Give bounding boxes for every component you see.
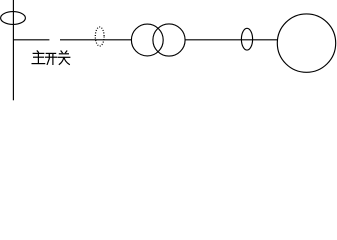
glyph 开 [46,53,57,64]
current transformer CT1 (dotted ellipse) [95,27,104,46]
source ellipse (incoming supply) [1,12,26,25]
wire: bus to main switch [13,39,49,41]
wire: vertical incoming bus [12,0,14,100]
glyph 主 [32,51,45,64]
transformer T1 winding 2 [153,24,185,56]
label 主开关 (main switch) drawn as strokes [32,51,70,65]
wire: transformer to load [185,39,278,41]
load / generator circle [277,14,335,72]
glyph 关 [58,51,70,64]
main switch (open gap) / wire to transformer [60,39,131,41]
current transformer CT2 (solid ellipse) [241,28,252,50]
transformer T1 winding 1 [131,24,163,56]
